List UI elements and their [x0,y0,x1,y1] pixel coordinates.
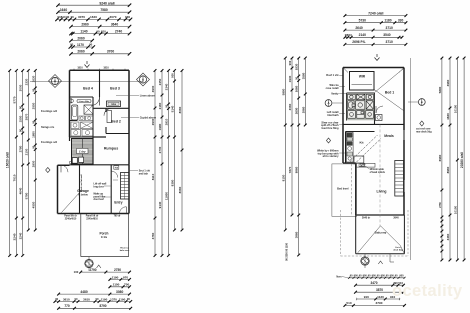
dim row R-T3 [344,26,408,32]
note: white bay [317,150,345,159]
svg-text:3070: 3070 [110,15,117,19]
svg-text:A: A [327,101,330,105]
sect note right of stairs [129,169,139,171]
vdim LL1 [9,71,11,256]
svg-text:5790: 5790 [24,192,28,199]
svg-text:Balcony: Balcony [375,231,387,235]
svg-text:760 dr: 760 dr [114,216,121,218]
centre dashed line [379,124,381,226]
svg-text:90: 90 [96,29,100,33]
svg-text:7010: 7010 [12,174,16,181]
dim row L-B6 [57,304,132,309]
svg-text:alt to startery: alt to startery [323,155,339,158]
svg-text:900: 900 [372,275,377,278]
svg-text:8060: 8060 [178,106,182,113]
svg-text:Garage: Garage [77,189,89,193]
svg-text:100: 100 [74,270,79,274]
dim row L-T3 multi segments [56,15,132,21]
wall dim ticks above top wall [74,69,125,71]
svg-text:7870: 7870 [288,166,292,173]
wc suite [70,99,73,102]
section marker A right [137,73,150,86]
kitchen bench [346,132,375,163]
svg-text:90: 90 [19,106,23,109]
svg-text:2640: 2640 [355,26,363,30]
svg-text:4480: 4480 [80,290,88,294]
svg-text:700: 700 [124,283,129,287]
svg-text:330: 330 [125,15,130,19]
svg-text:90: 90 [75,297,78,301]
svg-text:1170: 1170 [77,43,84,47]
svg-text:hng door: hng door [94,185,104,188]
svg-text:robe: robe [111,103,117,106]
svg-text:2600: 2600 [295,107,299,114]
outer walls upper body [70,70,130,165]
svg-text:9140: 9140 [158,201,162,208]
dim row L-T6 [70,37,94,42]
svg-text:3580: 3580 [301,72,305,79]
svg-text:9240 o/all: 9240 o/all [99,1,114,5]
section marker right [408,99,425,106]
garage diagonal [62,192,81,213]
svg-text:5730: 5730 [359,19,367,23]
svg-text:rear deck 5dg: rear deck 5dg [416,130,432,133]
small open triangle marker [97,265,101,268]
leader notes below kitchen [360,165,367,167]
svg-text:8960: 8960 [295,166,299,173]
vdim RL3 [298,58,300,255]
vdim LL2 [15,71,17,256]
svg-text:2810: 2810 [165,118,169,125]
svg-text:A: A [421,100,424,104]
ens fixtures [347,93,374,120]
svg-text:1100: 1100 [113,283,120,287]
svg-text:3240: 3240 [12,233,16,240]
svg-text:Roof 1 sht: Roof 1 sht [326,74,338,77]
rumpus walls [70,137,130,165]
svg-text:2800: 2800 [31,160,35,167]
svg-text:1130: 1130 [377,295,384,299]
svg-text:16020 o/all: 16020 o/all [6,152,10,168]
svg-text:Porch: Porch [99,232,108,236]
svg-text:1830: 1830 [295,63,299,70]
vdim RR2 [449,58,451,260]
small diamond [326,138,330,143]
svg-text:3900: 3900 [151,85,155,92]
vdim RL2 [291,58,293,215]
linen note leader 1 [116,95,139,97]
svg-text:3870: 3870 [376,288,383,292]
svg-text:1190: 1190 [112,275,119,279]
garage/entry internal walls [80,165,112,214]
vdim LR5 [181,71,183,231]
svg-text:1660: 1660 [295,85,299,92]
svg-text:810: 810 [101,29,106,33]
svg-text:1370: 1370 [110,297,117,301]
svg-text:5140: 5140 [171,105,175,112]
section marker B left [325,100,343,107]
window marks on right wall [403,130,405,192]
svg-text:Footings s/d: Footings s/d [41,140,57,144]
svg-text:feed thru fttng: feed thru fttng [322,127,339,130]
svg-text:2790: 2790 [89,268,96,272]
svg-text:Bed 1: Bed 1 [385,91,394,95]
svg-text:Vanity: Vanity [331,92,339,95]
vdim RR3 [456,58,458,260]
svg-text:1810: 1810 [103,67,109,70]
svg-text:1190: 1190 [101,297,108,301]
svg-text:330: 330 [398,19,404,23]
svg-text:900: 900 [390,275,395,278]
svg-text:1640: 1640 [446,113,450,120]
bed2 robe [107,111,112,123]
dim row L-T7 [69,43,95,49]
left lower outer wall continues [343,163,404,215]
L-shaped reference line [390,254,394,262]
small step rects above garage [72,158,77,164]
wall under bed1 zone [343,121,404,125]
svg-text:2140: 2140 [359,33,367,37]
section line A-A horizontal [30,81,143,83]
svg-text:3060: 3060 [288,103,292,110]
vdim LR4 [174,71,176,231]
svg-text:8110: 8110 [151,173,155,180]
svg-text:Linen Abv: Linen Abv [79,100,90,103]
svg-text:2160: 2160 [158,102,162,109]
svg-text:8790: 8790 [99,304,106,308]
dim row L-T8 [70,50,131,55]
svg-text:2640: 2640 [393,217,399,220]
svg-text:20280 o/all: 20280 o/all [460,152,464,168]
svg-text:Rumpus: Rumpus [104,147,118,151]
svg-text:510: 510 [346,301,351,305]
balcony [356,215,405,254]
vanity [79,116,85,121]
svg-text:9390: 9390 [171,179,175,186]
small 760 box at stair top [114,166,119,169]
svg-text:4640: 4640 [19,187,23,194]
wall around bath column [70,97,94,137]
svg-text:L'dry: L'dry [79,149,86,153]
stair note leader [113,179,118,181]
shower with X [84,105,93,114]
svg-text:Entry: Entry [114,201,122,205]
vdim RR4 [463,58,465,260]
svg-text:Kit: Kit [360,141,364,145]
svg-text:90 2350 90 1190: 90 2350 90 1190 [286,242,289,260]
datum symbol below balcony [361,254,369,268]
dim row L-B3 [109,283,131,288]
door arc bed1 [376,106,383,113]
vdim RL1 [284,58,286,230]
svg-text:2330: 2330 [24,78,28,85]
dim row R-B4 [356,295,400,301]
dim row R-T4 [344,33,404,39]
small open triangle marker [378,261,382,264]
Bed3 door arc [104,108,112,116]
dim row L-B2 [109,275,131,281]
svg-text:fc tile: fc tile [101,236,108,239]
datum symbol below porch [85,257,93,271]
svg-text:90: 90 [96,297,99,301]
svg-text:3710: 3710 [386,40,394,44]
wc cubicle [376,115,383,121]
dim row L-T5 [70,29,131,35]
dim row L-T2 [57,8,131,13]
svg-text:Panel lift dr: Panel lift dr [64,215,77,218]
balcony roof diagonals [358,226,404,253]
svg-text:3340: 3340 [165,83,169,90]
svg-text:2700: 2700 [158,146,162,153]
dashed eaves outline [341,210,409,256]
svg-text:900: 900 [288,60,292,65]
stairs upper flight [395,161,404,197]
svg-text:5890: 5890 [438,86,442,93]
svg-text:90: 90 [395,275,398,278]
dim row R-B1 multi [336,275,405,279]
svg-text:WIR: WIR [359,75,366,79]
dim row L-B1 [74,268,131,274]
svg-text:4960: 4960 [446,79,450,86]
svg-text:2740: 2740 [115,30,123,34]
svg-text:2340x4810: 2340x4810 [86,217,98,220]
site boundary line right [409,58,411,260]
porch outline [81,214,129,257]
svg-text:770: 770 [64,304,70,308]
dim row L-T1 overall 9240 [57,1,131,6]
dim row R-T1 overall 7240 [344,11,408,17]
svg-text:90: 90 [71,15,75,19]
dim row R-T2 [344,19,408,25]
stair center rail [124,173,126,200]
svg-text:2060: 2060 [77,37,85,41]
dim row L-T4 [70,23,131,29]
svg-text:and ladr: and ladr [139,172,148,175]
svg-text:o'head cpbds: o'head cpbds [370,171,386,174]
svg-text:5890: 5890 [281,88,285,95]
svg-text:2750: 2750 [438,202,442,208]
svg-text:cove nstall: cove nstall [326,87,339,90]
lower fixtures row [71,122,79,129]
svg-text:3700: 3700 [107,50,115,54]
svg-text:11850: 11850 [165,192,169,201]
WIR room [350,72,375,91]
svg-text:6960: 6960 [438,154,442,161]
svg-text:510: 510 [347,33,352,37]
svg-text:1190: 1190 [119,297,126,301]
entry door arc bottom [120,207,127,214]
svg-text:balc over: balc over [120,250,130,252]
dim row R-T5 [344,40,408,46]
svg-text:3970: 3970 [24,113,28,120]
roof-below rectangle [332,164,357,216]
dim row L-B5 multi [54,297,133,303]
svg-text:2750: 2750 [114,268,121,272]
svg-text:8060: 8060 [178,186,182,193]
vdim LR1 [154,71,156,256]
note: roof sheet [326,74,343,77]
vdim LL4 [27,71,29,231]
svg-text:90: 90 [89,43,93,47]
small diamond right [420,121,424,126]
svg-text:1850: 1850 [31,131,35,138]
svg-text:5770: 5770 [12,96,16,103]
bathtub [72,105,78,120]
svg-text:deck 5dg: deck 5dg [393,250,403,252]
hall walls [93,97,106,137]
vdim RL4 [304,58,306,125]
svg-text:ocetality: ocetality [392,282,463,300]
svg-text:Bed 3: Bed 3 [110,87,120,91]
Bed4 door arc [91,97,100,106]
svg-text:4460: 4460 [446,233,450,240]
svg-text:1980: 1980 [158,123,162,130]
kitchen diagonal band (void over) [350,135,381,165]
internal stair flight [121,173,130,200]
svg-text:Panel lift dr: Panel lift dr [86,215,99,218]
note: vanity [331,92,346,95]
svg-text:2450: 2450 [158,78,162,85]
svg-text:1840: 1840 [90,15,97,19]
vdim LR3 [168,71,170,256]
svg-text:3760: 3760 [151,232,155,239]
svg-text:Footings s/d: Footings s/d [41,109,57,113]
linen note leader 2 [121,116,139,118]
svg-text:2780: 2780 [19,145,23,152]
svg-text:Meals: Meals [384,134,394,138]
dim row R-B2 [354,281,405,287]
dim row L-B4 [57,290,131,296]
svg-text:3790: 3790 [376,301,383,305]
svg-text:2640 dr: 2640 dr [362,217,370,220]
linen abv pill [77,100,91,103]
svg-text:2060: 2060 [77,50,85,54]
svg-text:90: 90 [19,129,23,132]
vdim LL5 [34,71,36,231]
svg-text:900: 900 [363,275,368,278]
svg-text:3240: 3240 [19,232,23,239]
svg-text:3610: 3610 [63,297,70,301]
vdim RR1 [441,58,443,260]
svg-text:Cupbd above: Cupbd above [140,115,157,119]
svg-text:10150: 10150 [453,205,457,214]
svg-text:900: 900 [354,275,359,278]
svg-text:2696 P/L: 2696 P/L [352,40,365,44]
svg-text:3080: 3080 [116,290,124,294]
svg-text:970: 970 [123,275,128,279]
svg-text:A: A [142,78,145,82]
svg-text:3960: 3960 [295,231,299,238]
note: wire balustrade [326,84,345,90]
north/entry arrow above plan [85,61,90,68]
svg-text:3710: 3710 [386,26,394,30]
svg-text:Nom: Nom [336,277,341,279]
svg-text:7240 o/all: 7240 o/all [368,11,383,15]
svg-text:4550: 4550 [31,201,35,208]
svg-text:1140: 1140 [80,30,87,34]
svg-text:90: 90 [70,43,74,47]
svg-text:Bed 2: Bed 2 [111,120,121,124]
door arc into entry [111,171,118,178]
robe box bed3 [107,101,121,107]
top corner diagonal braces [343,68,404,73]
svg-text:1550: 1550 [19,115,23,122]
svg-text:8960: 8960 [446,166,450,173]
svg-text:1640: 1640 [60,8,68,12]
svg-text:A: A [54,79,57,83]
dim row R-B3 [354,288,405,294]
svg-text:1180: 1180 [384,19,391,23]
garage door arc top-left [61,165,68,172]
island bench [354,156,364,163]
svg-text:7580: 7580 [100,8,108,12]
svg-text:1810: 1810 [77,67,83,70]
bath / wc fixtures block [70,97,94,137]
ensuite block walls [347,93,375,121]
svg-text:fc below: fc below [78,194,88,197]
svg-text:90: 90 [55,297,58,301]
svg-text:2340x4810: 2340x4810 [65,217,77,220]
section marker A left [49,75,62,88]
wall between Bed4 and Bed3 [99,70,101,97]
svg-text:900: 900 [399,275,404,278]
north/entry arrow above plan [375,54,380,61]
svg-text:1200: 1200 [360,163,366,166]
svg-text:3000: 3000 [19,84,23,91]
cathedral diagonals in Bed1 [349,69,404,111]
svg-text:door leaf: door leaf [94,198,104,201]
svg-text:tiled bath: tiled bath [327,114,339,117]
svg-text:Linen above: Linen above [140,94,156,98]
svg-text:90: 90 [66,15,70,19]
svg-text:3470: 3470 [370,281,377,285]
svg-text:910: 910 [364,295,369,299]
svg-text:3640: 3640 [111,23,119,27]
svg-text:1930: 1930 [288,75,292,82]
svg-text:Living: Living [377,190,387,194]
svg-text:90: 90 [127,297,130,301]
dim row R-B5 [344,301,406,307]
svg-text:Bed level: Bed level [337,187,349,191]
svg-text:Bed 4: Bed 4 [83,87,93,91]
laundry / stairs hatched block [72,139,94,165]
svg-text:2100: 2100 [24,148,28,155]
svg-text:930: 930 [171,73,175,78]
svg-text:2960: 2960 [301,106,305,113]
svg-text:2550: 2550 [31,102,35,109]
svg-text:3540: 3540 [383,33,391,37]
note: left install [327,111,345,117]
svg-text:3070: 3070 [78,15,85,19]
svg-text:9150: 9150 [281,174,285,181]
svg-text:900: 900 [381,275,386,278]
svg-text:2960: 2960 [81,23,89,27]
vdim LR2 [161,71,163,256]
garage outer walls [58,165,130,214]
svg-text:3610: 3610 [83,297,90,301]
vdim LL3 [22,71,24,256]
pantry note [359,164,365,167]
Bed 2 room walls [106,108,129,133]
svg-text:fixings n/s: fixings n/s [41,125,55,129]
svg-text:10150: 10150 [453,104,457,113]
outer walls [343,68,404,216]
small diamond symbol [46,168,50,173]
note: shower rose [321,121,345,130]
